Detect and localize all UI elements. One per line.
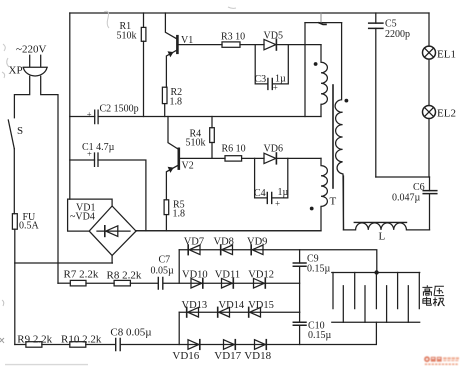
- svg-text:C8 0.05µ: C8 0.05µ: [110, 326, 151, 338]
- svg-text:R3 10: R3 10: [221, 32, 245, 43]
- svg-text:0.05µ: 0.05µ: [151, 266, 175, 277]
- capacitor C5: [375, 13, 377, 177]
- svg-text:VD18: VD18: [244, 350, 271, 362]
- svg-text:510k: 510k: [117, 31, 137, 42]
- transformer box top: [305, 22, 342, 24]
- svg-text:V2: V2: [182, 161, 194, 172]
- diode VD9: [252, 245, 263, 255]
- wire switch to fuse: [13, 149, 15, 214]
- wire row3-row4 left vertical: [178, 312, 180, 344]
- svg-text:C4: C4: [254, 188, 266, 199]
- svg-text:VD10: VD10: [182, 269, 208, 280]
- svg-text:VD15: VD15: [248, 300, 274, 311]
- wire DC- emitter rail: [136, 230, 321, 232]
- svg-text:0.047µ: 0.047µ: [392, 193, 421, 204]
- wire plug left lead: [14, 76, 29, 118]
- resistor R8: [86, 282, 114, 284]
- transistor V2: [166, 117, 178, 200]
- svg-text:+: +: [87, 109, 92, 119]
- wire C2/base bias rail: [98, 116, 321, 118]
- label 高压 (drawn glyphs): [422, 285, 444, 296]
- svg-text:S: S: [17, 125, 23, 137]
- watermark logo (red): [424, 356, 459, 365]
- svg-text:+: +: [273, 82, 278, 92]
- transistor V1: [165, 13, 177, 87]
- svg-text:T: T: [330, 196, 337, 208]
- svg-text:R8 2.2k: R8 2.2k: [107, 270, 142, 282]
- resistor R5: [164, 200, 169, 215]
- wire bridge right to DC- rail: [135, 230, 137, 232]
- svg-text:EL2: EL2: [437, 108, 456, 120]
- diode VD17: [224, 340, 235, 350]
- label 电极 (drawn glyphs): [423, 297, 445, 306]
- svg-text:C5: C5: [385, 19, 397, 30]
- svg-text:VD11: VD11: [215, 269, 240, 280]
- diode VD14: [219, 307, 230, 317]
- node W2 dot: [310, 207, 314, 211]
- capacitor C10: [299, 312, 301, 344]
- wire bridge bottom stub: [111, 256, 113, 264]
- transformer winding W1 (top feedback): [321, 45, 327, 117]
- svg-text:+: +: [87, 149, 92, 159]
- svg-text:C6: C6: [413, 182, 425, 193]
- wire W3 bottom to L line: [343, 176, 345, 230]
- wire C1 leads: [70, 160, 146, 231]
- svg-text:V1: V1: [181, 35, 193, 46]
- wire C2 left lead: [70, 116, 95, 118]
- wire plug right lead down: [41, 76, 58, 283]
- switch S blade: [8, 120, 14, 149]
- transformer core: [332, 85, 334, 188]
- svg-text:XP: XP: [9, 65, 23, 77]
- svg-text:VD16: VD16: [172, 350, 199, 362]
- diode matrix row4 wire: [121, 322, 376, 344]
- svg-text:+: +: [275, 198, 280, 208]
- svg-text:VD8: VD8: [214, 237, 234, 248]
- bridge inner diode: [97, 230, 130, 232]
- resistor R2: [162, 87, 167, 103]
- capacitor C4 loop: [255, 158, 288, 198]
- capacitor C3 loop: [255, 45, 288, 84]
- resistor R4: [211, 117, 213, 159]
- svg-text:EL1: EL1: [437, 49, 456, 61]
- svg-text:VD6: VD6: [264, 144, 283, 155]
- capacitor C9: [299, 250, 301, 312]
- svg-text:0.5A: 0.5A: [19, 221, 40, 232]
- svg-text:VD9: VD9: [247, 237, 267, 248]
- resistor R6: [225, 156, 242, 161]
- svg-text:R7 2.2k: R7 2.2k: [64, 269, 99, 281]
- svg-text:VD5: VD5: [264, 31, 283, 42]
- capacitor C7: [158, 278, 163, 290]
- svg-text:VD14: VD14: [219, 300, 245, 311]
- svg-text:R10 2.2k: R10 2.2k: [61, 333, 102, 345]
- svg-text:1µ: 1µ: [278, 187, 289, 198]
- diode VD8: [222, 245, 233, 255]
- svg-text:L: L: [379, 231, 386, 243]
- lamp EL2: [423, 106, 436, 119]
- diode VD10: [191, 278, 202, 288]
- capacitor C1 plates: [95, 153, 99, 166]
- svg-text:C3: C3: [255, 74, 267, 85]
- wire rail to EL1: [428, 13, 430, 46]
- wire lamp bottom joining: [376, 176, 430, 178]
- capacitor C2 plates: [95, 110, 98, 123]
- diode VD13: [188, 307, 199, 317]
- svg-text:C2 1500p: C2 1500p: [100, 104, 139, 115]
- fuse FU body: [12, 214, 17, 230]
- diode VD12: [254, 278, 265, 288]
- node plug prongs: [30, 55, 41, 67]
- svg-text:R9 2.2k: R9 2.2k: [17, 333, 52, 345]
- comb teeth down: [333, 273, 419, 309]
- diode matrix row1 wire: [179, 250, 377, 273]
- transformer winding W2 (bottom feedback): [136, 158, 327, 230]
- svg-text:VD17: VD17: [214, 350, 241, 362]
- inductor L with core: [344, 223, 430, 230]
- svg-text:VD7: VD7: [184, 237, 204, 248]
- decorative scan smudges: [0, 7, 236, 365]
- capacitor C6: [429, 177, 431, 230]
- diode matrix row3 wire: [179, 311, 299, 313]
- lamp EL1: [423, 46, 436, 59]
- transformer winding W3 (HV secondary): [335, 23, 343, 230]
- bridge label box: [68, 199, 113, 231]
- wire EL2 down: [428, 119, 430, 178]
- diode VD6: [264, 153, 276, 163]
- node W3 dot: [345, 99, 349, 103]
- wire left frame vertical (DC+): [69, 13, 71, 199]
- svg-text:2200p: 2200p: [385, 29, 410, 40]
- svg-text:~VD4: ~VD4: [70, 212, 95, 223]
- electrode comb bottom bar: [332, 321, 420, 323]
- resistor R7: [58, 282, 70, 284]
- connector XP dome: [23, 67, 47, 76]
- svg-text:VD12: VD12: [248, 269, 274, 280]
- diode VD5: [264, 39, 276, 49]
- wire AC branch to bridge bottom: [15, 262, 113, 264]
- resistor R10: [42, 344, 70, 346]
- bridge rectifier VD1~VD4 diamond: [89, 206, 136, 256]
- svg-text:1.8: 1.8: [173, 209, 186, 220]
- diode VD7: [189, 245, 200, 255]
- diode VD15: [250, 307, 261, 317]
- diode VD11: [222, 278, 233, 288]
- diode VD18: [255, 340, 266, 350]
- resistor R1: [143, 13, 145, 117]
- node W1 dot: [314, 62, 318, 66]
- svg-text:1.8: 1.8: [170, 97, 183, 108]
- svg-text:C7: C7: [159, 255, 171, 266]
- wire EL1 to EL2: [428, 59, 430, 105]
- comb teeth up: [343, 286, 408, 323]
- electrode comb top bar: [332, 272, 420, 274]
- svg-text:0.15µ: 0.15µ: [307, 264, 331, 275]
- resistor R9: [15, 344, 26, 346]
- svg-text:510k: 510k: [186, 138, 206, 149]
- svg-text:0.15µ: 0.15µ: [308, 330, 332, 341]
- svg-text:R6 10: R6 10: [222, 144, 246, 155]
- resistor R3: [222, 42, 240, 47]
- svg-text:VD13: VD13: [182, 300, 208, 311]
- diode VD16: [188, 340, 199, 350]
- wire fuse down to bottom line: [14, 229, 16, 344]
- wire top supply rail: [70, 12, 429, 14]
- svg-text:~220V: ~220V: [16, 44, 46, 56]
- wire stub rail to transformer box: [304, 23, 306, 117]
- wire row1-row2 left vertical: [178, 250, 180, 283]
- node comb feed dot: [374, 270, 378, 274]
- capacitor C8: [116, 339, 121, 351]
